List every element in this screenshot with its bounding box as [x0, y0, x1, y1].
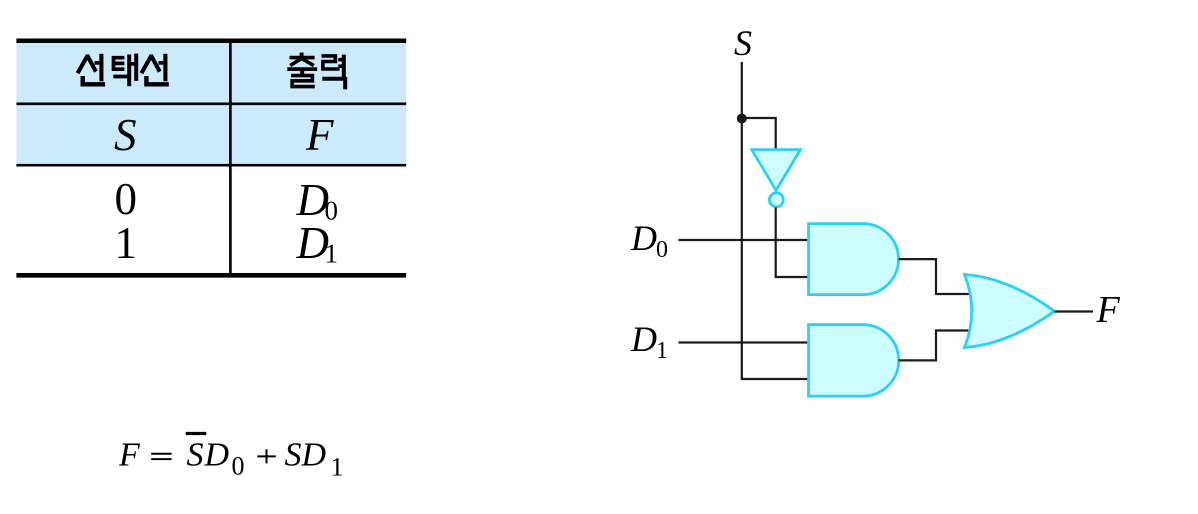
svg-text:D: D: [630, 218, 657, 258]
OR gate U4: [965, 275, 1055, 348]
junction on S line: [737, 114, 747, 124]
wire: branch from junction to inverter input: [742, 118, 776, 149]
inverter U1 bubble: [769, 193, 783, 207]
value 1 (table): [115, 218, 138, 268]
svg-text:S: S: [187, 437, 204, 474]
truth table bottom rule: [16, 273, 406, 278]
node label D1 (circuit input): [630, 319, 668, 364]
wire: D0 input to AND U2 upper input: [679, 239, 809, 241]
wire: inverter output to AND U2 lower input: [776, 208, 809, 278]
header hangul "seon" 1 (drawn strokes): [78, 54, 106, 85]
svg-text:F: F: [1096, 289, 1121, 331]
AND gate U3 (bottom): [809, 325, 899, 396]
svg-text:0: 0: [115, 174, 138, 224]
svg-text:F: F: [118, 437, 141, 474]
wire: OR U4 output to F: [1055, 310, 1094, 312]
svg-text:D: D: [630, 319, 657, 359]
truth table column divider: [229, 40, 232, 276]
truth table top rule: [16, 39, 406, 44]
svg-text:1: 1: [656, 338, 668, 364]
AND gate U2 (top): [809, 224, 899, 295]
truth table rule under header row: [16, 103, 406, 106]
node label F (table): [305, 110, 334, 160]
wire: AND U2 output to OR U4 upper input: [899, 259, 970, 294]
truth table rule under S/F row: [16, 164, 406, 167]
wire: D1 input to AND U3 upper input: [679, 341, 809, 343]
equation F = S'D0 + SD1: [118, 434, 344, 482]
header hangul "taek" (drawn strokes): [113, 54, 136, 87]
svg-text:S: S: [734, 23, 752, 63]
svg-text:1: 1: [115, 218, 138, 268]
value 0 (table): [115, 174, 138, 224]
wire: S vertical run: [742, 62, 809, 379]
header hangul "seon" 2 (drawn strokes): [141, 54, 168, 85]
value D1 (table): [296, 218, 339, 269]
svg-text:S: S: [285, 437, 302, 474]
header hangul "ryeok" (drawn strokes): [322, 55, 346, 90]
node label D0 (circuit input): [630, 218, 668, 263]
svg-text:1: 1: [331, 453, 344, 482]
svg-text:F: F: [305, 110, 334, 160]
node label S (table): [114, 110, 137, 160]
header hangul "chul" (drawn strokes): [287, 53, 317, 87]
svg-text:S: S: [114, 110, 137, 160]
wire: AND U3 output to OR U4 lower input: [899, 331, 970, 361]
node label S (circuit input): [734, 23, 752, 63]
svg-text:0: 0: [656, 237, 668, 263]
node label F (circuit output): [1096, 289, 1121, 331]
truth table header fill: [16, 41, 406, 164]
value D0 (table): [296, 175, 339, 226]
svg-text:D: D: [301, 437, 327, 474]
svg-text:0: 0: [232, 452, 245, 481]
inverter U1 (triangle): [752, 150, 801, 191]
svg-text:D: D: [204, 437, 230, 474]
svg-text:1: 1: [325, 239, 339, 269]
